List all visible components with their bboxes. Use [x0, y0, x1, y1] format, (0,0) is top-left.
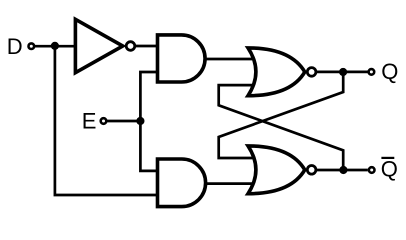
label Qbar overline — [381, 157, 394, 159]
svg-text:Q: Q — [381, 59, 398, 84]
wire bottom NOR output to Qbar terminal — [317, 169, 368, 172]
node Qbar junction — [339, 166, 347, 174]
wire top NOR output to Q terminal — [317, 71, 368, 74]
svg-text:E: E — [82, 109, 97, 134]
inverter U1 — [75, 19, 122, 72]
wire bottom AND output to bottom NOR input — [206, 182, 256, 185]
AND gate U2 (top) — [158, 35, 206, 82]
AND gate U3 (bottom) — [158, 159, 206, 207]
wire D input to inverter — [35, 45, 76, 48]
NOR gate U4 (top) — [248, 48, 305, 96]
svg-text:Q: Q — [381, 157, 398, 182]
node D junction — [51, 42, 59, 50]
output terminal Qbar — [369, 167, 375, 173]
wire E input to junction — [107, 120, 141, 123]
input terminal E — [101, 118, 107, 124]
wire top AND output to top NOR input — [205, 58, 256, 61]
inverter U1 output bubble — [126, 42, 135, 51]
NOR gate U4 output bubble — [307, 68, 316, 77]
wire D rail down and to lower AND input — [55, 46, 159, 195]
wire Q feedback to bottom NOR input (crossover) — [219, 72, 344, 158]
wire E rail up to top AND input — [140, 72, 159, 121]
output terminal Q — [369, 69, 375, 75]
svg-text:D: D — [7, 34, 23, 59]
NOR gate U5 (bottom) — [248, 146, 305, 194]
input terminal D — [29, 43, 35, 49]
wire Qbar feedback to top NOR input (crossover) — [219, 85, 344, 170]
node E junction — [136, 117, 144, 125]
wire E rail down to bottom AND input — [140, 121, 159, 171]
wire inverter output to AND gate — [136, 45, 160, 48]
node Q junction — [339, 68, 347, 76]
NOR gate U5 output bubble — [307, 166, 316, 175]
